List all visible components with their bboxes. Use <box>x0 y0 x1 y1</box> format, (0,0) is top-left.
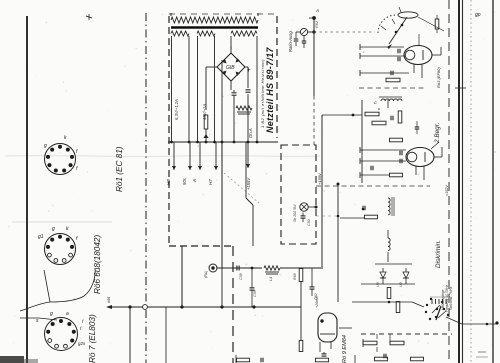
arrow H8 <box>173 142 175 170</box>
resistor R43 <box>372 121 386 125</box>
wire <box>235 355 237 363</box>
node <box>180 305 183 308</box>
wire <box>337 184 339 302</box>
capacitor C46 <box>232 92 237 94</box>
node <box>352 114 355 117</box>
capacitor C58 <box>236 266 238 271</box>
wire <box>360 55 405 57</box>
wire <box>170 13 172 16</box>
wire <box>309 17 314 19</box>
wire <box>12 221 112 223</box>
capacitor C50 <box>301 215 306 217</box>
wire <box>458 0 460 363</box>
wire <box>319 342 321 352</box>
wire <box>280 267 297 269</box>
wire <box>360 46 404 48</box>
wire <box>431 142 439 149</box>
coupling coil <box>398 12 418 18</box>
node <box>252 305 255 308</box>
transformer secondary winding 1 <box>171 31 189 36</box>
wire <box>129 307 131 363</box>
svg-text:C59: C59 <box>253 290 257 297</box>
IF coil L2 <box>381 99 402 101</box>
wire <box>446 317 462 324</box>
node <box>213 141 216 144</box>
capacitor C55 <box>370 166 372 171</box>
wire <box>412 302 424 307</box>
svg-text:A: A <box>192 179 197 183</box>
svg-text:Sk 202 5W: Sk 202 5W <box>293 204 297 222</box>
wire <box>413 64 415 73</box>
wire <box>20 302 50 311</box>
tube socket Rö6 <box>45 234 76 265</box>
wire <box>26 16 28 363</box>
scan speckle noise (decorative) <box>162 56 163 57</box>
tube socket Rö1 <box>45 144 76 175</box>
wire <box>340 217 364 219</box>
wire <box>361 100 363 183</box>
svg-text:g2s: g2s <box>78 341 86 346</box>
node A <box>86 16 92 18</box>
wire <box>434 156 442 158</box>
svg-text:U8: U8 <box>376 282 380 287</box>
wire <box>44 270 50 302</box>
node <box>256 141 259 144</box>
node <box>388 301 391 304</box>
svg-text:g1: g1 <box>38 234 44 240</box>
wire <box>221 60 223 142</box>
transformer core <box>171 26 258 28</box>
wire <box>217 267 262 269</box>
svg-text:R62: R62 <box>315 20 319 28</box>
wire <box>378 108 380 110</box>
wire <box>354 355 356 363</box>
wire <box>376 334 378 339</box>
node <box>251 267 254 270</box>
svg-text:A: A <box>315 8 319 13</box>
wire <box>145 13 147 363</box>
capacitor <box>260 358 262 363</box>
inductor L4 <box>264 266 280 270</box>
IF transformer L3 <box>388 198 390 215</box>
resistor <box>375 357 388 361</box>
switch lever <box>436 306 441 320</box>
svg-text:H8: H8 <box>166 179 171 185</box>
wire <box>361 333 452 335</box>
tube Rö9 target <box>320 319 323 322</box>
wire <box>165 307 167 363</box>
resistor R69 <box>299 269 303 282</box>
node <box>220 305 223 308</box>
wire <box>339 327 352 329</box>
resistor R56 <box>390 341 404 345</box>
switch S2 <box>426 304 428 306</box>
capacitor <box>399 151 401 156</box>
wire <box>359 87 424 89</box>
wire <box>221 267 223 307</box>
svg-text:g: g <box>52 226 55 232</box>
node <box>247 141 250 144</box>
corner mark <box>0 356 24 363</box>
node <box>188 141 191 144</box>
wire <box>256 36 258 142</box>
svg-text:(Rü): (Rü) <box>204 270 208 278</box>
transformer primary winding <box>171 17 258 23</box>
arrow H5 <box>189 142 191 170</box>
wire <box>360 149 406 151</box>
svg-text:1 B2 (mit erhöhtem Heizstrom): 1 B2 (mit erhöhtem Heizstrom) <box>260 59 265 128</box>
svg-text:#56: #56 <box>107 296 111 303</box>
lamp Skalenb <box>300 203 308 211</box>
wire <box>308 206 316 208</box>
resistor R45 <box>390 138 403 142</box>
tube Rö4 <box>406 148 434 167</box>
svg-text:C58: C58 <box>239 273 243 280</box>
transformer secondary winding 3 <box>231 31 257 36</box>
capacitor C62 <box>310 286 315 288</box>
wire <box>300 281 302 307</box>
wire <box>321 115 323 267</box>
switch contacts <box>431 299 433 304</box>
wire <box>197 36 199 142</box>
wire <box>171 36 173 142</box>
capacitor C57 <box>415 126 420 128</box>
resistor R40 <box>386 78 400 82</box>
wire <box>418 17 444 31</box>
resistor R42 <box>365 112 379 116</box>
svg-text:≈152V: ≈152V <box>445 185 449 196</box>
svg-text:Diskrimin.: Diskrimin. <box>435 240 442 268</box>
svg-text:+20mA: +20mA <box>315 296 319 308</box>
wire <box>360 174 389 176</box>
wire <box>230 36 232 50</box>
wire <box>492 0 494 363</box>
resistor R52 <box>396 302 400 313</box>
Netzteil box left edge <box>168 16 170 246</box>
capacitor C54 <box>390 116 392 121</box>
resistor R72 <box>299 341 303 352</box>
Netzteil box top edge <box>169 13 277 15</box>
wire <box>214 36 216 142</box>
wire <box>245 66 248 68</box>
wire <box>462 0 464 363</box>
svg-text:H7: H7 <box>208 179 213 185</box>
wire <box>376 347 378 352</box>
arrow 56 <box>106 305 112 309</box>
wire <box>360 160 406 162</box>
resistor R50 <box>365 215 378 219</box>
wire <box>5 155 320 158</box>
svg-text:C: C <box>374 100 377 105</box>
node <box>221 141 224 144</box>
svg-text:g: g <box>44 143 47 149</box>
resistor R51 <box>387 288 391 299</box>
wire <box>313 17 315 96</box>
capacitor C68 <box>322 353 327 355</box>
capacitor C59 <box>250 287 255 289</box>
wire <box>381 26 386 30</box>
svg-text:Rö3 (EF80): Rö3 (EF80) <box>436 67 441 88</box>
svg-text:Rö1 (EC 81): Rö1 (EC 81) <box>115 146 124 192</box>
wire <box>360 72 409 74</box>
resistor R55 <box>363 341 377 345</box>
wire <box>308 31 315 33</box>
wire <box>362 339 364 347</box>
svg-text:2.Begr.: 2.Begr. <box>434 123 441 144</box>
diode U9 <box>405 268 407 272</box>
svg-text:g: g <box>50 311 53 317</box>
svg-text:Gn.A: Gn.A <box>248 128 253 138</box>
Netzteil box bottom edge <box>169 245 233 247</box>
wire <box>470 0 472 363</box>
resistor <box>237 358 250 362</box>
node <box>128 305 131 308</box>
wire <box>352 301 412 303</box>
svg-text:+155V: +155V <box>317 173 322 185</box>
wire <box>168 141 278 143</box>
wire <box>387 230 389 238</box>
svg-text:Rö6 6u8(18042): Rö6 6u8(18042) <box>93 235 102 294</box>
svg-text:+155V: +155V <box>246 177 251 190</box>
resistor R48 <box>204 115 208 129</box>
wire <box>221 142 223 267</box>
arrow H7 <box>215 142 217 170</box>
transformer secondary winding 2 <box>197 31 215 36</box>
node <box>205 141 208 144</box>
node <box>312 16 316 20</box>
capacitor C56 <box>362 206 364 211</box>
arrow A <box>199 142 201 170</box>
node <box>196 141 199 144</box>
lamp Rö8 <box>209 264 217 272</box>
capacitor C66 <box>383 354 385 359</box>
wire <box>296 31 301 33</box>
node <box>362 208 365 211</box>
wire <box>382 278 384 284</box>
resistor <box>411 357 424 361</box>
node <box>401 24 404 27</box>
wire <box>230 46 232 53</box>
wire <box>206 66 217 68</box>
svg-text:GIB: GIB <box>226 65 235 71</box>
svg-text:Netzteil HS 89-7/17: Netzteil HS 89-7/17 <box>265 47 275 133</box>
svg-text:gp: gp <box>475 12 481 18</box>
capacitor C48 <box>302 40 307 42</box>
svg-text:U9: U9 <box>399 282 403 287</box>
wire <box>314 31 375 33</box>
Netzteil box right edge <box>276 16 278 138</box>
wire <box>448 0 450 363</box>
meter <box>300 28 307 35</box>
wire <box>181 246 183 307</box>
Skalenb box <box>281 145 316 244</box>
tube Rö9 <box>318 313 337 342</box>
wire <box>245 142 247 198</box>
svg-text:Rö 9 EM84: Rö 9 EM84 <box>342 335 348 363</box>
resistor <box>435 19 439 29</box>
svg-text:Meßsend. 7MHz: Meßsend. 7MHz <box>449 286 453 310</box>
svg-text:50s: 50s <box>182 177 187 185</box>
wire <box>375 263 412 265</box>
wire <box>50 268 95 302</box>
wire <box>455 87 466 89</box>
inductor L5 <box>236 106 252 110</box>
resistor <box>316 358 329 362</box>
capacitor C47 <box>246 89 251 91</box>
wire <box>39 318 57 320</box>
resistor R44 <box>398 111 402 123</box>
resistor R46 <box>390 173 403 177</box>
capacitor C52 <box>390 71 392 76</box>
wire <box>224 173 259 203</box>
wire <box>232 246 234 363</box>
diode U8 <box>382 268 384 272</box>
wire <box>205 129 207 142</box>
wire <box>322 114 362 116</box>
svg-text:R69: R69 <box>293 273 297 280</box>
terminal <box>143 305 148 310</box>
svg-text:Rö 7 (EL803): Rö 7 (EL803) <box>88 314 97 363</box>
mark <box>478 351 486 353</box>
tube Rö3 <box>404 46 432 65</box>
wire <box>432 54 441 56</box>
wire <box>316 185 430 187</box>
tube socket Rö7 <box>45 318 78 351</box>
tuning arrow <box>389 17 407 44</box>
ground bus <box>108 306 301 308</box>
wire <box>188 36 190 142</box>
node <box>312 30 315 33</box>
bridge rectifier GlB <box>217 53 245 81</box>
tuning indicator arc <box>378 15 395 33</box>
wire <box>415 166 417 175</box>
svg-text:C50: C50 <box>307 219 311 226</box>
node <box>233 141 236 144</box>
wire <box>316 215 338 217</box>
capacitor <box>397 49 399 54</box>
node <box>170 141 173 144</box>
capacitor C49 <box>294 38 299 40</box>
svg-text:a: a <box>66 311 69 317</box>
svg-text:L4: L4 <box>269 277 273 281</box>
arrow +A <box>247 142 249 168</box>
svg-text:6,3V/~1,2A: 6,3V/~1,2A <box>174 99 179 120</box>
svg-text:Ratio-Ausg.: Ratio-Ausg. <box>288 30 293 52</box>
